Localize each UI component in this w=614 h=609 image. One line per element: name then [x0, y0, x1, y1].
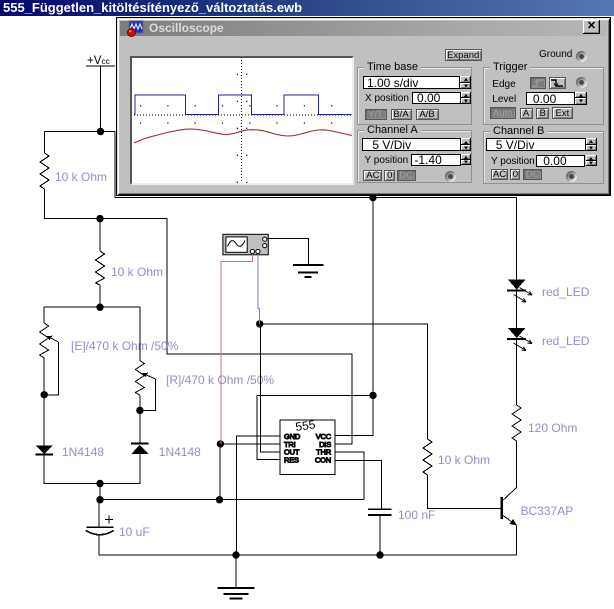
- wire diodes junction to cap node: [99, 484, 101, 500]
- graticule horizontal dotted axis: [134, 114, 352, 116]
- wire D1 to diodes junction: [44, 456, 100, 484]
- potentiometer R wiper wire: [140, 379, 156, 410]
- transistor Q1 BC337AP: [501, 487, 517, 525]
- node ground junction: [232, 551, 239, 558]
- wire Vcc down right: [114, 132, 116, 198]
- wire collector up: [516, 486, 518, 488]
- wire pot R to diode D2: [139, 410, 141, 442]
- wire OUT to base resistor: [260, 324, 428, 439]
- wire THR pin to cap net: [335, 452, 364, 500]
- potentiometer E wiper arrow: [46, 336, 58, 342]
- capacitor C2 100nF: [368, 509, 391, 515]
- LED D3 red_LED: [507, 279, 532, 302]
- graticule vertical dotted axis: [241, 60, 243, 181]
- wire VCC pin up: [335, 198, 373, 436]
- wire D2 to diodes junction: [100, 454, 140, 484]
- svg-text:red_LED: red_LED: [542, 285, 590, 299]
- instrument oscilloscope icon: [223, 234, 268, 255]
- Ground label: [539, 49, 572, 60]
- wire scope channel B blue: [258, 254, 260, 324]
- Time base group: [357, 67, 472, 125]
- wire emitter to ground rail: [516, 525, 518, 555]
- resistor R1 10k: [40, 153, 49, 189]
- potentiometer E zigzag: [40, 323, 49, 358]
- wire Vcc horizontal rail under scope window: [115, 196, 517, 198]
- node RES-VCC junction: [369, 392, 376, 399]
- 555 timer U1: [280, 417, 335, 474]
- svg-text:10 k Ohm: 10 k Ohm: [55, 170, 107, 184]
- window icon: [127, 20, 144, 37]
- svg-text:10 k Ohm: 10 k Ohm: [438, 453, 490, 467]
- svg-text:120 Ohm: 120 Ohm: [528, 421, 577, 435]
- resistor R2 10k: [96, 251, 105, 285]
- wire C2 to ground rail: [379, 516, 381, 555]
- node pots junction: [96, 304, 103, 311]
- wire LED2 to R5: [516, 340, 518, 405]
- svg-text:1N4148: 1N4148: [62, 445, 104, 459]
- svg-text:10 k Ohm: 10 k Ohm: [111, 265, 163, 279]
- wire pots top rail: [44, 306, 140, 308]
- svg-text:10 uF: 10 uF: [119, 525, 150, 539]
- node diodes junction: [96, 480, 103, 487]
- application title bar: [0, 0, 614, 16]
- wire LED column down: [516, 197, 518, 279]
- svg-text:CON: CON: [315, 455, 331, 464]
- potentiometer R wiper arrow: [142, 373, 156, 379]
- wire R1 bottom to junction: [45, 189, 101, 219]
- wire pot R bottom: [139, 395, 141, 410]
- potentiometer R zigzag: [135, 361, 144, 396]
- wire pot E to diode D1: [43, 395, 45, 446]
- wire scope channel A red: [221, 254, 253, 444]
- wire to R1: [44, 132, 46, 154]
- wire ground rail: [99, 554, 517, 556]
- wire cap net horizontal: [100, 499, 364, 501]
- node pot E bottom junction: [41, 391, 48, 398]
- wire scope ground terminal: [267, 238, 308, 264]
- wire OUT pin up: [261, 324, 280, 452]
- resistor R5 120 Ohm: [512, 405, 521, 441]
- LED D4 red_LED: [507, 328, 532, 351]
- Expand button: [445, 49, 482, 61]
- svg-text:BC337AP: BC337AP: [521, 504, 574, 518]
- wire pot E bottom: [43, 358, 45, 395]
- node Vcc junction: [97, 128, 104, 135]
- wire R2 to pots junction: [99, 285, 101, 307]
- wire R5 to collector: [516, 441, 518, 487]
- node cap net mid junction: [216, 496, 223, 503]
- wire Vcc top rail left: [45, 131, 116, 133]
- wire R4 to base: [428, 475, 501, 509]
- Channel A group: [357, 130, 472, 183]
- capacitor C1 10uF polarized: [86, 500, 114, 555]
- wire TRI junction to pin: [220, 443, 280, 445]
- node cap net left junction: [96, 496, 103, 503]
- diode D2 1N4148: [131, 443, 148, 454]
- wire to potentiometer R: [139, 307, 141, 360]
- node pot R bottom junction: [136, 407, 143, 414]
- wire junction to DIS pin: [100, 219, 352, 444]
- wire RES pin: [257, 395, 373, 459]
- wire junction down to R2: [99, 219, 101, 251]
- potentiometer E wiper wire: [44, 342, 58, 395]
- svg-text:1N4148: 1N4148: [159, 445, 201, 459]
- ground symbol main: [218, 555, 255, 599]
- svg-text:RES: RES: [284, 455, 299, 464]
- wire to potentiometer E: [43, 307, 45, 323]
- wire base resistor R4 top: [427, 438, 429, 440]
- svg-text:+Vcc: +Vcc: [87, 55, 111, 67]
- svg-text:100 nF: 100 nF: [398, 508, 435, 522]
- node Vcc rail junction: [369, 194, 376, 201]
- Channel B group: [483, 131, 604, 184]
- graticule division tick dots: [140, 105, 141, 106]
- wire LED1 to LED2: [516, 292, 518, 328]
- oscilloscope window: [116, 17, 611, 196]
- node TRI junction: [217, 440, 224, 447]
- wire TRI vertical to cap net: [219, 444, 221, 500]
- node OUT junction: [256, 320, 263, 327]
- svg-text:[R]/470 k Ohm /50%: [R]/470 k Ohm /50%: [166, 373, 274, 387]
- wire CON pin to C2: [335, 460, 381, 508]
- ground symbol at scope: [293, 265, 324, 277]
- wire GND pin: [237, 436, 280, 555]
- resistor R4 10k: [423, 439, 432, 475]
- node C2 ground junction: [376, 551, 383, 558]
- svg-text:red_LED: red_LED: [542, 334, 590, 348]
- +Vcc supply symbol: [86, 66, 115, 132]
- Trigger group: [483, 67, 604, 125]
- svg-text:[E]/470 k Ohm /50%: [E]/470 k Ohm /50%: [71, 339, 179, 353]
- node R1-R2 junction: [96, 215, 103, 222]
- diode D1 1N4148: [36, 445, 53, 454]
